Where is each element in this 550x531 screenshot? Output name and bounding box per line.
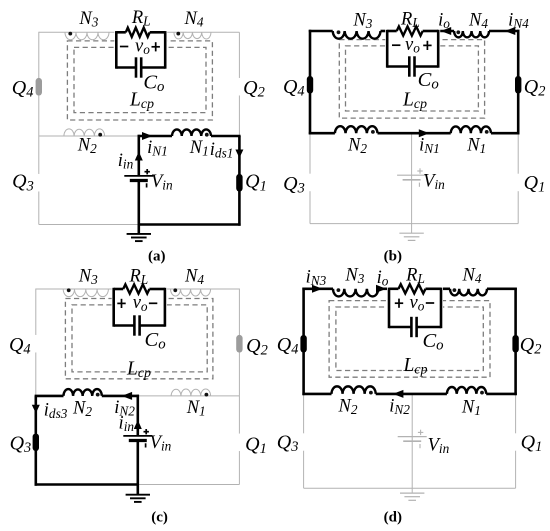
inductor N2 (d) — [332, 386, 376, 394]
wire input riser (d) — [411, 394, 413, 488]
vo minus sign (b) — [392, 44, 400, 46]
switch Q2 body open (a) — [236, 78, 242, 96]
inductor N3 (c) — [63, 289, 108, 297]
inductor N4 (c) — [171, 289, 211, 296]
switch Q1 body open (b) — [515, 174, 521, 192]
wire input riser bold (c) — [137, 395, 140, 436]
wire bottom rail right segment (c) — [138, 484, 240, 486]
ground (a) — [127, 225, 151, 242]
current arrow iN3 (d) — [312, 285, 323, 293]
coupled inductor Lcp inner dashed box (a) — [74, 47, 206, 112]
wire bottom rail (d) — [304, 487, 516, 489]
switch Q4 body on (d) — [300, 335, 306, 353]
inductor N4 (d) — [450, 289, 487, 296]
switch Q1 body open (d) — [512, 433, 518, 451]
current arrow iN2 (c) — [122, 392, 133, 400]
current arrow io (d) — [376, 285, 387, 293]
switch Q1 body open (c) — [236, 434, 242, 452]
wire top rail right segment (c) — [164, 288, 240, 290]
switch Q1 body on (a) — [236, 174, 242, 192]
voltage source Vin (d) — [398, 430, 427, 449]
wire top rail left segment bold (d) — [302, 287, 333, 290]
wire mid rail bold left (d) — [302, 393, 331, 396]
coupled inductor Lcp inner dashed box (b) — [346, 46, 479, 111]
wire mid rail left segment (a) — [39, 135, 139, 137]
svg-text:(c): (c) — [151, 509, 168, 525]
voltage source Vin (a) — [124, 169, 153, 188]
wire right branch Q2 (c) — [238, 289, 240, 396]
wire left branch Q3 (d) — [303, 394, 305, 488]
coupled inductor Lcp outer dashed box (a) — [67, 41, 212, 120]
wire left branch Q4 (c) — [35, 289, 37, 396]
wire mid rail bold right (b) — [491, 132, 519, 135]
switch Q4 body gray (a) — [36, 78, 42, 96]
svg-text:(a): (a) — [148, 248, 166, 264]
vo minus sign (c) — [149, 302, 157, 304]
ground (c) — [126, 485, 150, 502]
inductor N3 (a) — [65, 32, 109, 40]
wire left branch Q4 bold (d) — [302, 288, 305, 396]
inductor N1 (d) — [447, 387, 486, 394]
wire battery to bottom rail (c) — [137, 441, 140, 485]
ground (b) — [399, 224, 423, 241]
wire top rail left segment (c) — [36, 288, 115, 290]
wire left branch Q3 bold (c) — [34, 396, 37, 486]
wire right branch Q1 (b) — [517, 133, 519, 223]
wire left branch Q4 (a) — [38, 32, 40, 136]
switch Q3 body open (b) — [307, 174, 313, 192]
vo minus sign (a) — [120, 46, 128, 48]
wire top rail mid segment bold (d) — [378, 287, 390, 290]
load box with resistor RL and capacitor Co (d) — [387, 287, 443, 328]
switch Q2 body on (b) — [515, 76, 521, 94]
voltage source Vin (b) — [397, 168, 426, 187]
wire top rail mid segment bold (b) — [381, 30, 389, 33]
inductor N3 (b) — [333, 31, 381, 39]
switch Q3 body open (a) — [36, 174, 42, 192]
wire mid rail bold left (b) — [309, 132, 335, 135]
wire right branch Q2 bold (d) — [514, 288, 517, 396]
ground (d) — [400, 488, 424, 500]
switch Q2 body gray (c) — [236, 335, 242, 353]
inductor N3 (d) — [333, 289, 378, 297]
current arrow iin (a) — [135, 152, 143, 161]
svg-text:(b): (b) — [384, 248, 402, 264]
switch Q4 body open (c) — [33, 335, 39, 353]
wire top rail box-to-N4 segment bold (d) — [440, 287, 450, 290]
wire right branch Q2 (a) — [238, 32, 240, 136]
coupled inductor Lcp outer dashed box (c) — [65, 299, 213, 379]
inductor N4 (b) — [454, 31, 489, 37]
load box with resistor RL and capacitor Co (a) — [114, 31, 167, 69]
wire mid rail bold segment (a) — [138, 135, 172, 138]
wire top rail right segment bold (d) — [487, 287, 517, 290]
wire top rail left segment bold (b) — [309, 30, 333, 33]
current arrow iN2 (d) — [393, 390, 404, 398]
wire right branch Q1 (d) — [515, 394, 517, 488]
svg-text:(d): (d) — [384, 509, 402, 525]
wire mid rail bold right segment (c) — [102, 395, 139, 398]
vo plus sign (a) — [152, 42, 160, 51]
wire right branch Q1 bold (a) — [238, 136, 241, 226]
load box with resistor RL and capacitor Co (b) — [385, 30, 440, 69]
wire battery to bottom rail (a) — [138, 181, 141, 225]
wire bottom rail bold (a) — [138, 223, 241, 226]
switch Q3 body open (d) — [300, 433, 306, 451]
coupled inductor Lcp inner dashed box (d) — [336, 307, 483, 371]
inductor N1 (a) — [172, 129, 211, 136]
coupled inductor Lcp outer dashed box (b) — [339, 40, 484, 119]
wire input riser bold (a) — [138, 135, 141, 176]
wire top rail box-to-N4 segment bold (b) — [437, 30, 454, 33]
inductor N4 (a) — [174, 32, 211, 39]
current arrow iN1 (a) — [142, 132, 153, 140]
inductor N1 (c) — [171, 389, 211, 396]
vo plus sign (b) — [423, 41, 431, 50]
wire top rail left segment (a) — [39, 31, 118, 33]
wire mid rail bold right (d) — [486, 393, 517, 396]
inductor N2 (c) — [64, 389, 102, 396]
wire mid rail bold segment (c) — [35, 395, 64, 398]
wire bottom rail left segment (a) — [39, 224, 139, 226]
wire right branch Q1 (c) — [238, 396, 240, 485]
wire right branch Q2 bold (b) — [517, 30, 520, 135]
coupled inductor Lcp inner dashed box (c) — [72, 305, 207, 372]
inductor N2 (a) — [64, 129, 105, 136]
wire bottom rail bold (c) — [35, 483, 139, 486]
wire input riser (b) — [411, 133, 413, 223]
wire bottom rail (b) — [310, 223, 518, 225]
wire mid rail bold center (b) — [378, 132, 451, 135]
wire mid rail right segment (c) — [138, 395, 240, 397]
wire top rail right segment (a) — [164, 31, 239, 33]
switch Q4 body on (b) — [307, 76, 313, 94]
switch Q3 body on (c) — [33, 434, 39, 452]
current arrow iN1 (b) — [419, 129, 430, 137]
vo minus sign (d) — [426, 302, 434, 304]
wire left branch Q3 (b) — [309, 133, 311, 223]
wire top rail right segment bold (b) — [489, 30, 519, 33]
current arrow ids1 (a) — [235, 150, 243, 159]
current arrow iin (c) — [134, 420, 142, 429]
wire left branch Q3 (a) — [38, 136, 40, 225]
wire mid rail bold right segment (a) — [211, 135, 241, 138]
current arrow io (b) — [441, 27, 452, 35]
current arrow ids3 (c) — [32, 405, 40, 414]
wire left branch Q4 bold (b) — [309, 30, 312, 135]
switch Q2 body on (d) — [512, 335, 518, 353]
current arrow iN4 (b) — [505, 27, 516, 35]
coupled inductor Lcp outer dashed box (d) — [329, 301, 490, 378]
load box with resistor RL and capacitor Co (c) — [112, 288, 167, 328]
inductor N1 (b) — [451, 126, 491, 133]
wire mid rail bold center (d) — [376, 393, 447, 396]
vo plus sign (d) — [395, 299, 403, 308]
vo plus sign (c) — [117, 299, 125, 308]
voltage source Vin (c) — [123, 429, 152, 448]
inductor N2 (b) — [335, 126, 378, 133]
